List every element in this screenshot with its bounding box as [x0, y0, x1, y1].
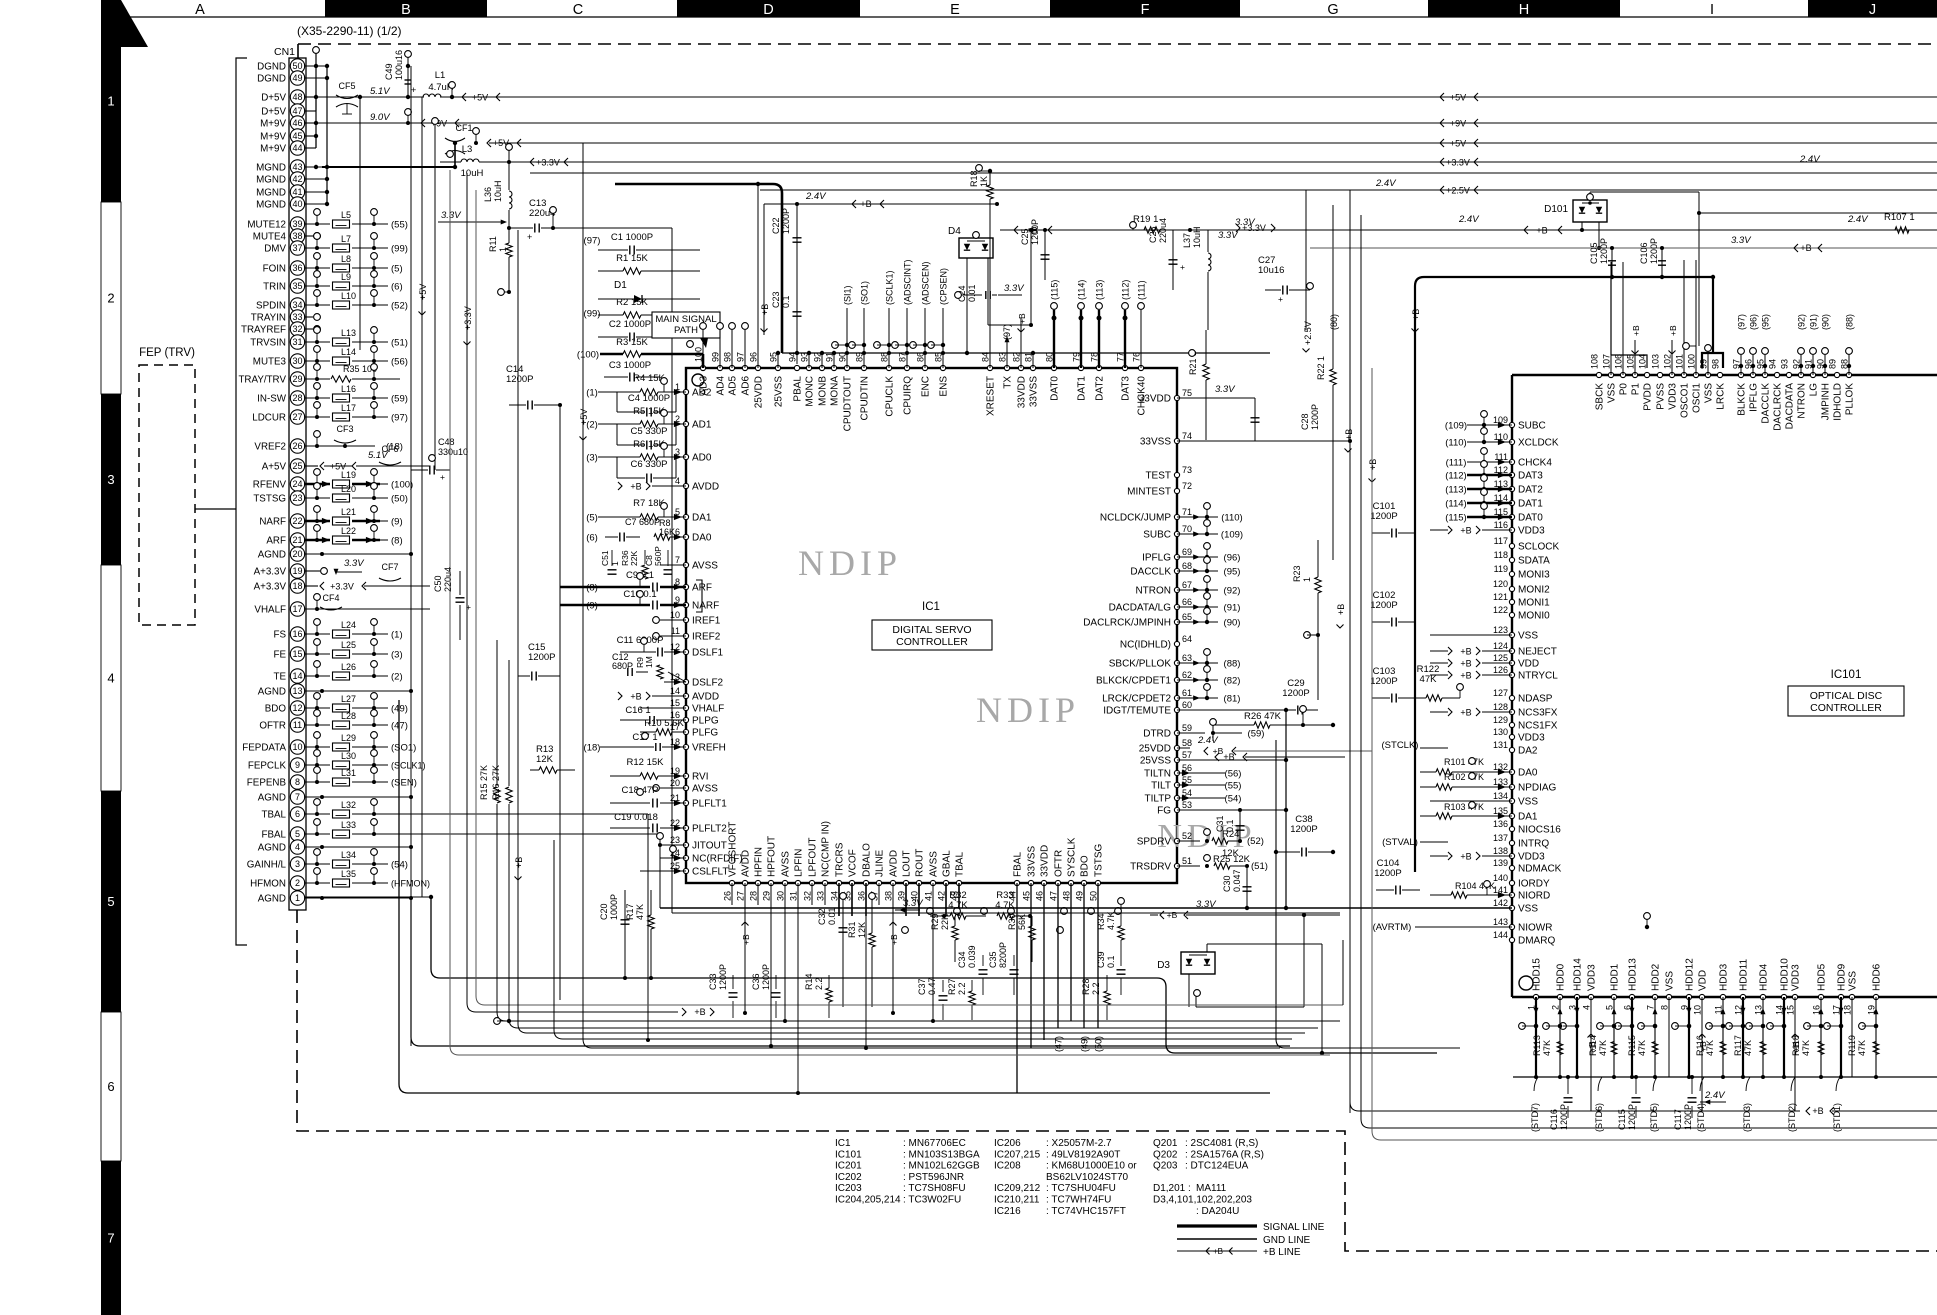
svg-text:CF7: CF7	[381, 562, 398, 572]
svg-text:L17: L17	[341, 403, 356, 413]
svg-text:CONTROLLER: CONTROLLER	[1810, 702, 1882, 714]
svg-text:R29: R29	[930, 913, 940, 930]
svg-text:FS: FS	[273, 629, 286, 640]
svg-text:+: +	[527, 232, 532, 242]
svg-text:DA1: DA1	[1518, 812, 1538, 823]
svg-text:FEPDATA: FEPDATA	[242, 742, 286, 753]
svg-text:ARF: ARF	[266, 535, 286, 546]
svg-text:27: 27	[736, 891, 746, 901]
svg-text:+: +	[1278, 294, 1283, 304]
svg-text:131: 131	[1493, 740, 1508, 750]
svg-text:10: 10	[670, 610, 680, 620]
svg-text:1200P: 1200P	[1627, 1104, 1637, 1130]
svg-text:118: 118	[1494, 550, 1508, 560]
svg-text:(3): (3)	[586, 452, 598, 463]
svg-text:IC201: IC201	[835, 1161, 862, 1172]
svg-text:TX: TX	[1003, 376, 1014, 389]
svg-text:46: 46	[1035, 891, 1045, 901]
svg-text:108: 108	[1590, 354, 1600, 369]
svg-text:3.3V: 3.3V	[1004, 283, 1025, 294]
svg-text:JMPINH: JMPINH	[1821, 383, 1832, 420]
svg-text:9: 9	[295, 760, 300, 770]
svg-text:(88): (88)	[1224, 658, 1241, 669]
svg-text:11: 11	[671, 626, 680, 636]
svg-text:C11 6800P: C11 6800P	[617, 635, 664, 646]
svg-text:DAT0: DAT0	[1050, 376, 1061, 401]
svg-text:AGND: AGND	[258, 549, 286, 560]
svg-text:DACCLK: DACCLK	[1130, 567, 1171, 578]
svg-text:18: 18	[292, 581, 302, 591]
svg-text:49: 49	[1075, 891, 1085, 901]
svg-text:VCOF: VCOF	[848, 849, 859, 877]
svg-text:117: 117	[1494, 536, 1508, 546]
svg-text:0.1: 0.1	[1225, 819, 1235, 832]
svg-text:D+5V: D+5V	[261, 92, 286, 103]
svg-text:74: 74	[1182, 431, 1192, 441]
svg-text:+3.3V: +3.3V	[1242, 223, 1266, 233]
svg-text:68: 68	[1182, 561, 1192, 571]
svg-text:(CPSEN): (CPSEN)	[939, 268, 949, 305]
svg-text:+5V: +5V	[1450, 92, 1466, 102]
svg-text:SBCK: SBCK	[1595, 383, 1606, 411]
svg-text:+B: +B	[1668, 325, 1678, 336]
svg-text:+B: +B	[1460, 646, 1471, 656]
svg-text:21: 21	[292, 535, 302, 545]
svg-text:(111): (111)	[1137, 280, 1147, 300]
svg-text:(112): (112)	[1121, 280, 1131, 300]
svg-text:DACDATA: DACDATA	[1785, 383, 1796, 430]
svg-text:R16 27K: R16 27K	[491, 765, 501, 800]
svg-text:C115: C115	[1617, 1109, 1627, 1130]
svg-text:L35: L35	[341, 869, 356, 879]
svg-text:124: 124	[1493, 641, 1508, 651]
svg-text:1200P: 1200P	[761, 964, 771, 990]
svg-text:+B: +B	[1460, 658, 1471, 668]
svg-text:: MN102L62GGB: : MN102L62GGB	[903, 1161, 980, 1172]
svg-text:L31: L31	[341, 768, 356, 778]
svg-text:38: 38	[884, 891, 894, 901]
svg-text:AVDD: AVDD	[692, 482, 719, 493]
svg-text:35: 35	[292, 281, 302, 291]
svg-text:(5): (5)	[586, 512, 598, 523]
svg-text:: MN103S13BGA: : MN103S13BGA	[903, 1149, 980, 1160]
svg-text:(2): (2)	[391, 671, 403, 682]
svg-text:GAINH/L: GAINH/L	[247, 859, 287, 870]
svg-text:L27: L27	[341, 694, 356, 704]
svg-text:DGND: DGND	[257, 73, 286, 84]
svg-text:L22: L22	[341, 526, 356, 536]
svg-text:12: 12	[292, 703, 302, 713]
svg-text:VSS: VSS	[1704, 383, 1715, 403]
svg-text:19: 19	[292, 566, 302, 576]
svg-text:97: 97	[736, 352, 746, 362]
svg-text:IC101: IC101	[835, 1149, 862, 1160]
svg-text:(113): (113)	[1095, 280, 1105, 300]
svg-text:C19 0.018: C19 0.018	[614, 812, 658, 823]
svg-text:H: H	[1519, 2, 1529, 18]
svg-text:R17: R17	[625, 903, 635, 920]
svg-text:: DTC124EUA: : DTC124EUA	[1185, 1161, 1249, 1172]
svg-text:1200P: 1200P	[1370, 676, 1397, 687]
svg-text:6: 6	[295, 809, 300, 819]
svg-text:TRAY/TRV: TRAY/TRV	[238, 374, 286, 385]
svg-text:AVDD: AVDD	[741, 850, 752, 877]
svg-text:3.3V: 3.3V	[441, 210, 462, 221]
svg-text:JLINE: JLINE	[875, 849, 886, 877]
svg-text:CF1: CF1	[455, 123, 472, 133]
svg-text:1200P: 1200P	[1374, 868, 1401, 879]
svg-text:R118: R118	[1791, 1035, 1801, 1056]
svg-text:29: 29	[762, 891, 772, 901]
svg-text:IC216: IC216	[994, 1206, 1021, 1217]
svg-text:+B: +B	[630, 691, 641, 701]
svg-text:OFTR: OFTR	[259, 720, 286, 731]
svg-text:(97): (97)	[391, 412, 408, 423]
svg-text:G: G	[1327, 2, 1338, 18]
svg-text:(113): (113)	[1445, 484, 1466, 495]
svg-text:120: 120	[1493, 579, 1508, 589]
svg-text:2.2: 2.2	[1091, 982, 1101, 995]
svg-text:AVSS: AVSS	[692, 784, 718, 795]
svg-text:(95): (95)	[1761, 314, 1771, 330]
svg-text:D4: D4	[948, 226, 961, 237]
svg-text:IREF2: IREF2	[692, 632, 721, 643]
svg-text:NPDIAG: NPDIAG	[1518, 783, 1557, 794]
svg-text:C48: C48	[438, 437, 455, 447]
svg-text:1200P: 1200P	[528, 652, 555, 663]
svg-text:47: 47	[292, 106, 302, 116]
svg-text:0.01: 0.01	[967, 284, 977, 302]
svg-text:IC202: IC202	[835, 1172, 862, 1183]
svg-text:AD4: AD4	[716, 376, 727, 396]
svg-text:1000P: 1000P	[609, 894, 619, 920]
svg-text:L29: L29	[341, 733, 356, 743]
svg-text:A+5V: A+5V	[262, 461, 287, 472]
svg-text:1200P: 1200P	[1559, 1104, 1569, 1130]
svg-text:AVSS: AVSS	[781, 851, 792, 877]
svg-text:1M: 1M	[644, 656, 654, 668]
svg-text:30: 30	[292, 356, 302, 366]
svg-text:AVDD: AVDD	[692, 692, 719, 703]
svg-text:R102 47K: R102 47K	[1444, 772, 1484, 782]
svg-text:C23: C23	[771, 291, 781, 308]
svg-text:L16: L16	[341, 384, 356, 394]
svg-text:7: 7	[295, 792, 300, 802]
svg-text:30: 30	[776, 891, 786, 901]
svg-text:(96): (96)	[1749, 314, 1759, 330]
svg-text:NEJECT: NEJECT	[1518, 647, 1557, 658]
svg-text:L14: L14	[341, 347, 356, 357]
svg-text:70: 70	[1182, 524, 1192, 534]
svg-text:MGND: MGND	[256, 187, 286, 198]
svg-text:125: 125	[1493, 653, 1508, 663]
svg-text:10u16: 10u16	[1258, 265, 1284, 276]
svg-text:C49: C49	[384, 63, 394, 80]
svg-text:72: 72	[1182, 481, 1192, 491]
svg-text:L5: L5	[341, 210, 351, 220]
svg-text:: TC7WH74FU: : TC7WH74FU	[1046, 1195, 1111, 1206]
svg-text:127: 127	[1493, 688, 1508, 698]
svg-text:10uH: 10uH	[1192, 226, 1202, 248]
svg-text:(SO1): (SO1)	[860, 281, 870, 305]
svg-text:99: 99	[711, 352, 721, 362]
svg-text:99: 99	[1699, 359, 1709, 369]
svg-text:NIOCS16: NIOCS16	[1518, 825, 1561, 836]
svg-text:E: E	[950, 2, 960, 18]
svg-text:93: 93	[1780, 359, 1790, 369]
svg-text:+B: +B	[1223, 752, 1234, 762]
svg-text:CPUIRQ: CPUIRQ	[903, 376, 914, 415]
svg-text:: DA204U: : DA204U	[1196, 1206, 1239, 1217]
svg-text:4: 4	[295, 842, 300, 852]
svg-text:C34: C34	[957, 951, 967, 968]
svg-text:64: 64	[1182, 634, 1192, 644]
svg-text:TRVSIN: TRVSIN	[250, 337, 286, 348]
svg-text:(9): (9)	[586, 600, 598, 611]
svg-text:2: 2	[107, 291, 114, 306]
svg-text:PLLOK: PLLOK	[1845, 383, 1856, 416]
svg-text:VDD3: VDD3	[1518, 852, 1545, 863]
svg-text:TBAL: TBAL	[261, 809, 286, 820]
svg-text:DGND: DGND	[257, 61, 286, 72]
svg-text:VSS: VSS	[1518, 797, 1538, 808]
svg-text:TILT: TILT	[1151, 781, 1171, 792]
svg-text:FEPCLK: FEPCLK	[248, 760, 287, 771]
svg-text:I: I	[1710, 2, 1714, 18]
svg-text:0.47: 0.47	[927, 977, 937, 995]
svg-text:15: 15	[1786, 1005, 1796, 1015]
svg-text:JITOUT: JITOUT	[692, 841, 727, 852]
svg-text:C5 330P: C5 330P	[631, 426, 668, 437]
svg-text:3.3V: 3.3V	[1215, 384, 1236, 395]
svg-text:XCLDCK: XCLDCK	[1518, 438, 1559, 449]
svg-text:50: 50	[1089, 891, 1099, 901]
svg-text:SBCK/PLLOK: SBCK/PLLOK	[1109, 659, 1172, 670]
svg-text:+5V: +5V	[1450, 138, 1466, 148]
svg-text:29: 29	[292, 374, 302, 384]
svg-text:33VSS: 33VSS	[1140, 437, 1171, 448]
svg-text:42: 42	[937, 891, 947, 901]
svg-text:0.01: 0.01	[827, 907, 837, 925]
svg-text:C22: C22	[771, 217, 781, 234]
svg-text:IC208: IC208	[994, 1161, 1021, 1172]
svg-text:: TC74VHC157FT: : TC74VHC157FT	[1046, 1206, 1126, 1217]
svg-text:7: 7	[107, 1231, 114, 1246]
svg-text:VDD: VDD	[1518, 659, 1539, 670]
svg-text:C106: C106	[1639, 242, 1649, 264]
svg-text:(18): (18)	[584, 742, 601, 753]
svg-text:NARF: NARF	[259, 516, 286, 527]
svg-text:136: 136	[1493, 819, 1508, 829]
svg-text:AD5: AD5	[728, 376, 739, 396]
svg-text:CPUDTIN: CPUDTIN	[860, 376, 871, 420]
svg-text:J: J	[1869, 2, 1876, 18]
svg-text:MINTEST: MINTEST	[1127, 487, 1171, 498]
svg-text:VDD3: VDD3	[1668, 383, 1679, 410]
svg-text:R115: R115	[1627, 1035, 1637, 1056]
svg-text:: TC3W02FU: : TC3W02FU	[903, 1195, 961, 1206]
svg-text:LRCK/CPDET2: LRCK/CPDET2	[1102, 694, 1171, 705]
svg-text:49: 49	[292, 73, 302, 83]
svg-text:(56): (56)	[391, 356, 408, 367]
svg-text:AVDD: AVDD	[889, 850, 900, 877]
svg-text:VSS: VSS	[1665, 971, 1676, 991]
svg-text:: PST596JNR: : PST596JNR	[903, 1172, 964, 1183]
svg-text:R114: R114	[1588, 1035, 1598, 1056]
svg-text:C36: C36	[751, 973, 761, 990]
svg-text:+: +	[440, 472, 445, 482]
svg-text:PLFG: PLFG	[692, 728, 718, 739]
svg-text:+2.5V: +2.5V	[1446, 185, 1470, 195]
svg-text:0.1: 0.1	[781, 295, 791, 308]
svg-text:OFTR: OFTR	[1054, 850, 1065, 877]
svg-text:GND LINE: GND LINE	[1263, 1235, 1311, 1246]
svg-text:R31: R31	[847, 921, 857, 938]
svg-text:123: 123	[1493, 625, 1508, 635]
svg-text:138: 138	[1493, 846, 1508, 856]
svg-text:R3 15K: R3 15K	[616, 337, 648, 348]
svg-text:2.4V: 2.4V	[1375, 178, 1397, 189]
svg-text:M+9V: M+9V	[260, 131, 286, 142]
svg-text:+B: +B	[630, 481, 641, 491]
svg-text:2.4V: 2.4V	[1799, 154, 1821, 165]
svg-text:: KM68U1000E10 or: : KM68U1000E10 or	[1046, 1161, 1137, 1172]
svg-text:25VDD: 25VDD	[1139, 744, 1171, 755]
svg-text:IC1: IC1	[922, 601, 940, 613]
svg-text:: 49LV8192A90T: : 49LV8192A90T	[1046, 1149, 1120, 1160]
svg-text:1200P: 1200P	[1599, 238, 1609, 264]
svg-text:(111): (111)	[1446, 457, 1467, 468]
svg-text:(8): (8)	[391, 535, 403, 546]
svg-text:51: 51	[1182, 856, 1192, 866]
svg-text:RVI: RVI	[692, 772, 709, 783]
svg-text:D3,4,101,102,202,203: D3,4,101,102,202,203	[1153, 1195, 1252, 1206]
svg-text:2.2: 2.2	[814, 977, 824, 990]
svg-text:PBAL: PBAL	[793, 376, 804, 402]
svg-text:(1): (1)	[586, 387, 598, 398]
svg-text:DAT2: DAT2	[1518, 485, 1543, 496]
svg-text:R18: R18	[969, 170, 979, 187]
svg-text:1: 1	[295, 893, 300, 903]
svg-text:+B: +B	[694, 1007, 705, 1017]
svg-text:10uH: 10uH	[493, 180, 503, 202]
svg-text:+B: +B	[860, 199, 871, 209]
svg-text:(6): (6)	[391, 281, 403, 292]
svg-text:(STVAL): (STVAL)	[1382, 837, 1418, 848]
svg-text:D1,201 :: D1,201 :	[1153, 1183, 1191, 1194]
svg-text:+3.3V: +3.3V	[536, 157, 560, 167]
svg-text:LOUT: LOUT	[902, 850, 913, 877]
svg-text:FG: FG	[1157, 806, 1171, 817]
svg-text:TRSDRV: TRSDRV	[1130, 862, 1171, 873]
svg-text:14: 14	[292, 671, 302, 681]
svg-text:VFOSHORT: VFOSHORT	[728, 822, 739, 877]
svg-text:33VSS: 33VSS	[1027, 846, 1038, 877]
svg-text:LDCUR: LDCUR	[252, 412, 286, 423]
svg-text:56K: 56K	[1017, 914, 1027, 930]
svg-text:15: 15	[292, 649, 302, 659]
svg-text:22K: 22K	[940, 914, 950, 930]
svg-text:MONA: MONA	[830, 376, 841, 406]
svg-text:31: 31	[292, 337, 302, 347]
svg-text:MGND: MGND	[256, 162, 286, 173]
svg-text:IC203: IC203	[835, 1183, 862, 1194]
svg-text:(82): (82)	[1224, 675, 1241, 686]
svg-text:41: 41	[924, 891, 934, 901]
svg-text:(3): (3)	[391, 649, 403, 660]
svg-text:1: 1	[610, 561, 620, 566]
svg-text:33VDD: 33VDD	[1017, 376, 1028, 408]
svg-text:(80): (80)	[1329, 314, 1339, 330]
svg-text:23: 23	[670, 835, 680, 845]
svg-text:(8): (8)	[586, 582, 598, 593]
svg-text:: 2SA1576A (R,S): : 2SA1576A (R,S)	[1185, 1149, 1264, 1160]
svg-text:L8: L8	[341, 254, 351, 264]
svg-text:ENC: ENC	[921, 376, 932, 397]
svg-text:R15 27K: R15 27K	[479, 765, 489, 800]
svg-text:DA0: DA0	[692, 533, 712, 544]
svg-text:65: 65	[1182, 612, 1192, 622]
svg-text:102: 102	[1663, 354, 1673, 369]
svg-text:+B: +B	[1460, 851, 1471, 861]
svg-text:96: 96	[749, 352, 759, 362]
svg-text:L13: L13	[341, 328, 356, 338]
svg-text:(STCLK): (STCLK)	[1382, 740, 1419, 751]
svg-text:(X35-2290-11) (1/2): (X35-2290-11) (1/2)	[297, 24, 402, 38]
svg-text:104: 104	[1638, 354, 1648, 369]
svg-text:+B: +B	[889, 934, 899, 945]
svg-text:17: 17	[292, 604, 302, 614]
svg-text:ENS: ENS	[939, 376, 950, 397]
svg-text:LPFOUT: LPFOUT	[808, 838, 819, 877]
svg-text:61: 61	[1182, 688, 1192, 698]
svg-text:OSCO1: OSCO1	[1680, 383, 1691, 418]
svg-text:48: 48	[1062, 891, 1072, 901]
svg-text:AVSS: AVSS	[692, 561, 718, 572]
svg-text:(9): (9)	[391, 516, 403, 527]
svg-text:C33: C33	[708, 973, 718, 990]
svg-text:11: 11	[293, 720, 302, 730]
svg-text:NIOWR: NIOWR	[1518, 923, 1552, 934]
svg-text:HPFOUT: HPFOUT	[767, 836, 778, 877]
svg-text:DA0: DA0	[1518, 768, 1538, 779]
svg-text:24: 24	[292, 479, 302, 489]
svg-text:FEPENB: FEPENB	[247, 777, 287, 788]
svg-text:2: 2	[295, 878, 300, 888]
svg-text:HDD1: HDD1	[1610, 963, 1621, 991]
svg-text:SPDRV: SPDRV	[1137, 837, 1172, 848]
svg-text:10: 10	[292, 742, 302, 752]
svg-text:HDD4: HDD4	[1759, 963, 1770, 991]
svg-text:+B: +B	[1213, 1247, 1223, 1256]
svg-text:R2 15K: R2 15K	[616, 297, 648, 308]
svg-text:CN1: CN1	[274, 46, 295, 58]
svg-text:IREF1: IREF1	[692, 616, 721, 627]
svg-text:116: 116	[1494, 520, 1508, 530]
svg-text:47K: 47K	[1743, 1040, 1753, 1056]
svg-text:TILTP: TILTP	[1145, 794, 1172, 805]
svg-text:7: 7	[1646, 1005, 1656, 1010]
svg-text:R116: R116	[1695, 1035, 1705, 1056]
svg-text:47: 47	[1049, 891, 1059, 901]
svg-text:FBAL: FBAL	[261, 829, 286, 840]
svg-text:20: 20	[292, 549, 302, 559]
svg-text:(6): (6)	[586, 532, 598, 543]
svg-text:107: 107	[1602, 354, 1612, 369]
svg-text:220u4: 220u4	[1158, 218, 1168, 243]
svg-text:(96): (96)	[1224, 552, 1241, 563]
svg-text:L36: L36	[483, 187, 493, 202]
